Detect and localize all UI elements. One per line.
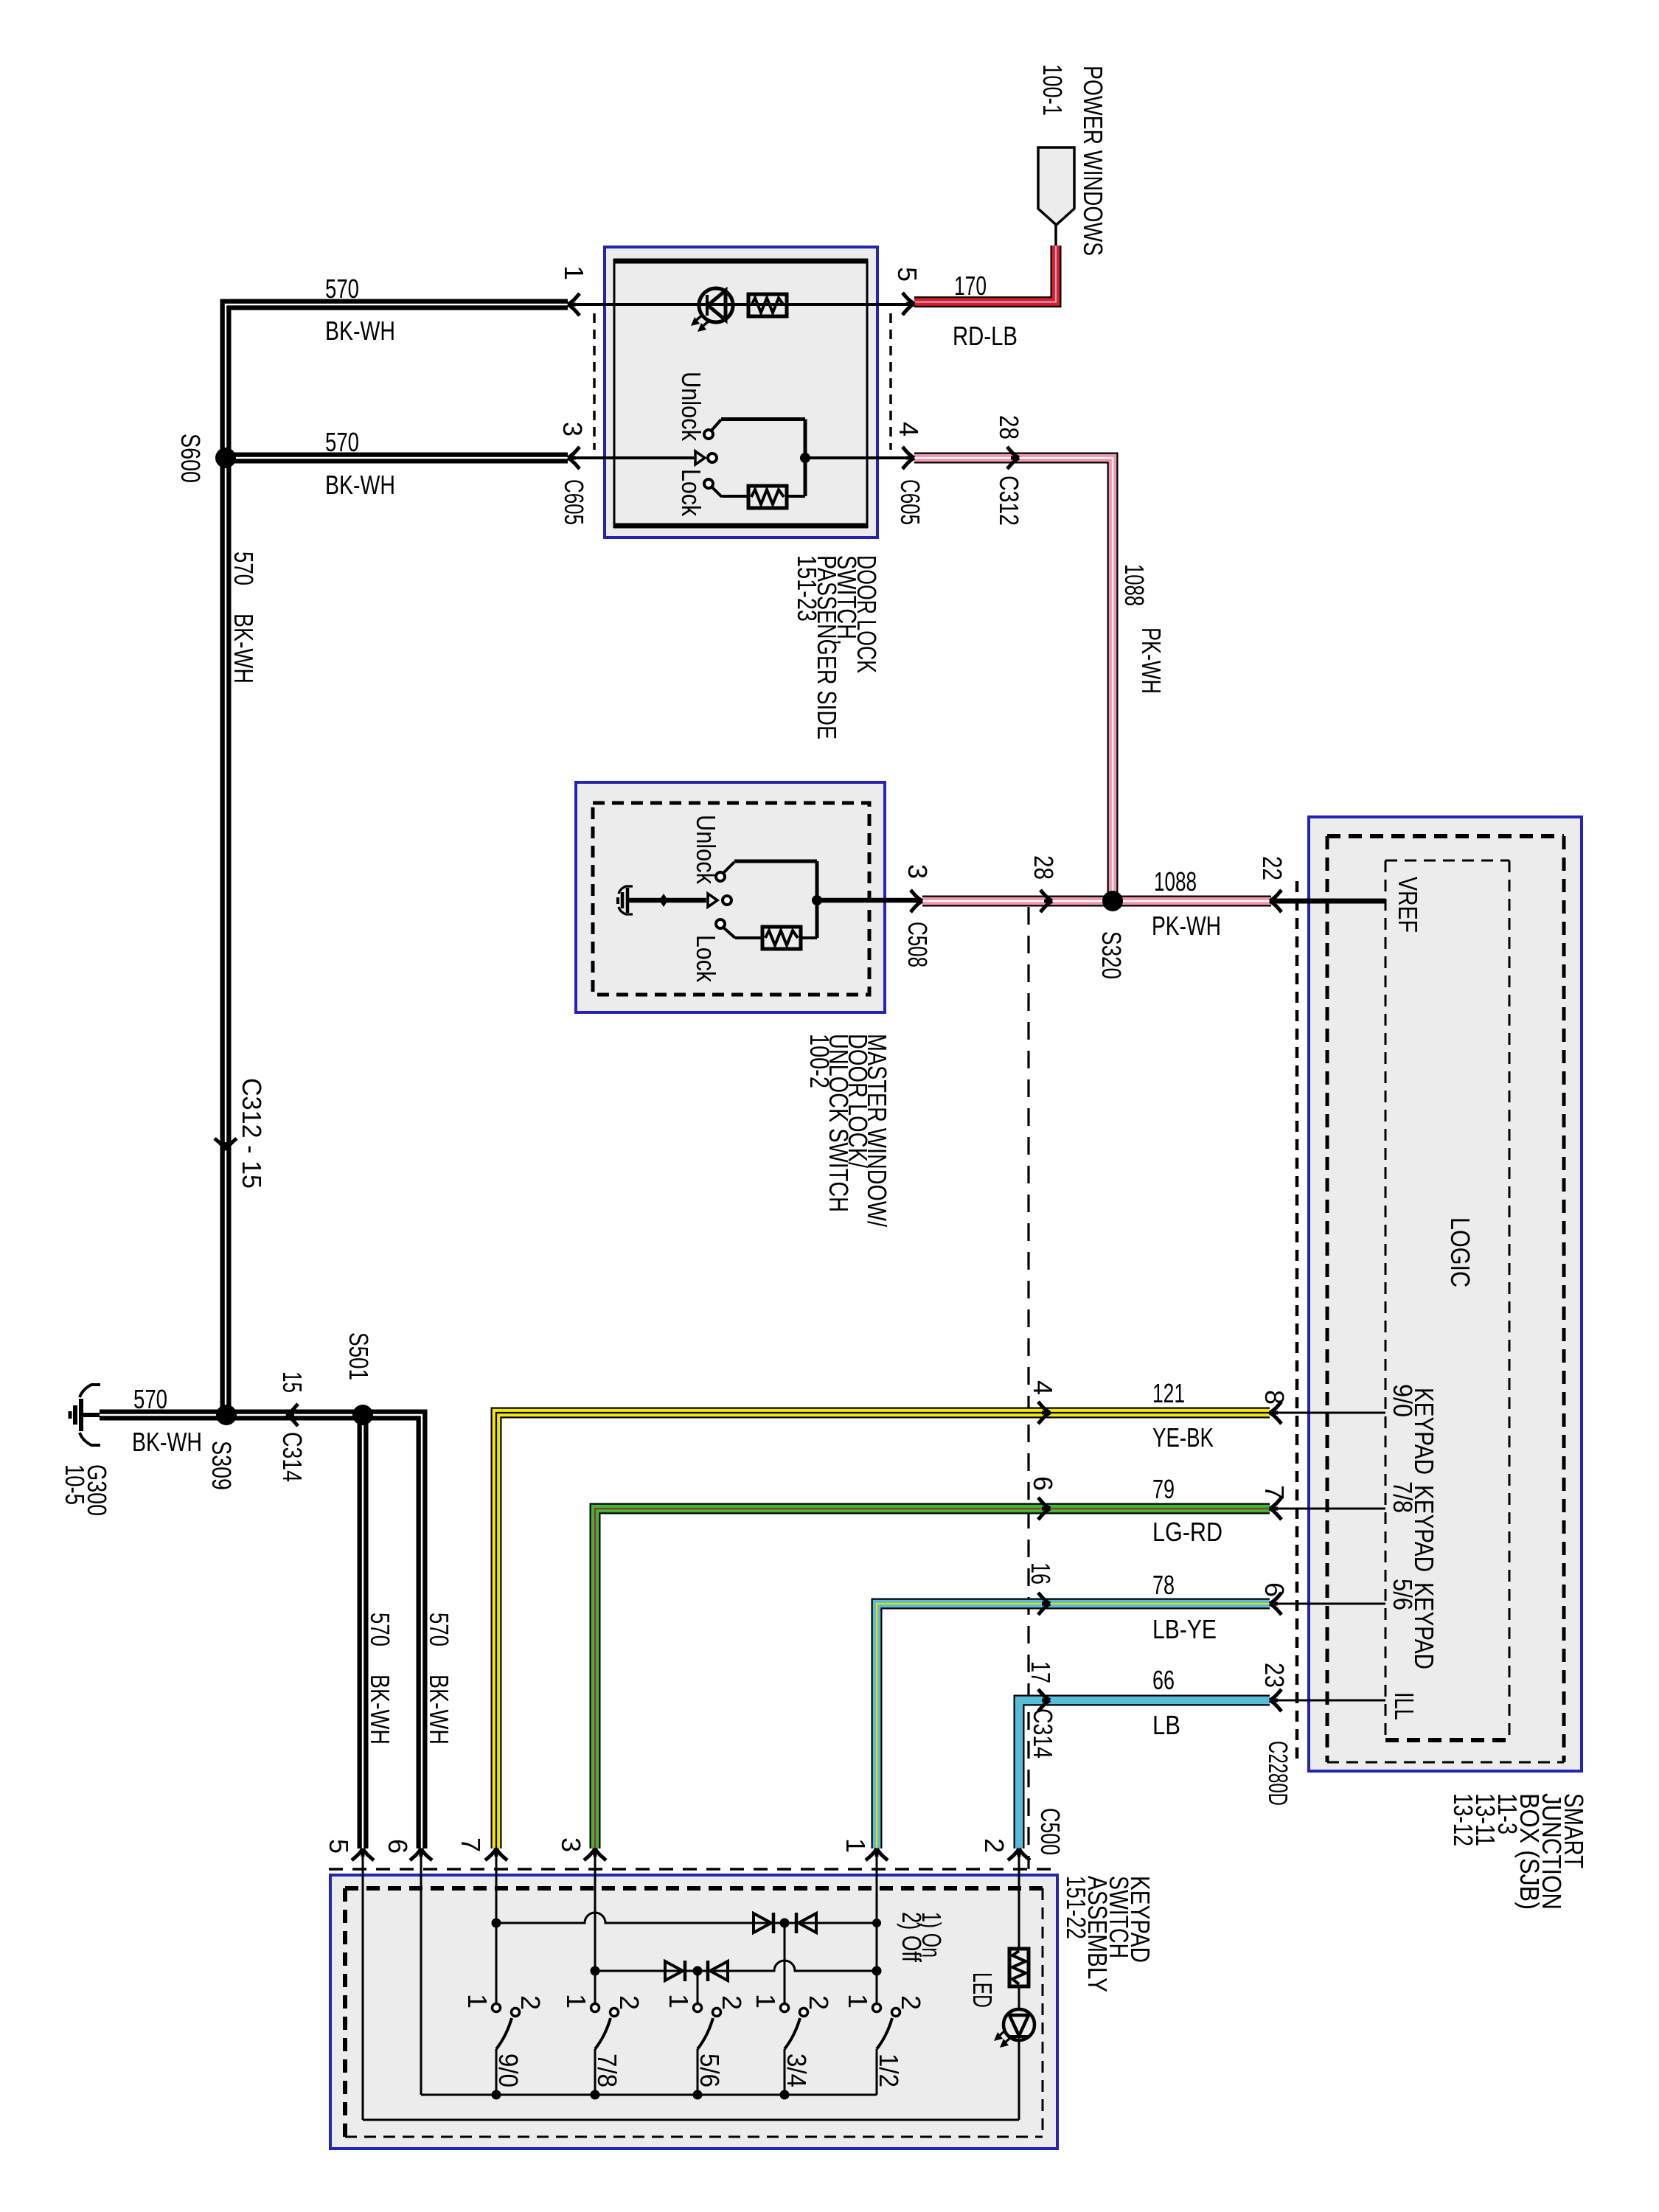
svg-text:570: 570: [325, 427, 359, 457]
svg-text:151-22: 151-22: [1061, 1876, 1091, 1939]
svg-text:Unlock: Unlock: [676, 372, 706, 442]
svg-text:1: 1: [751, 1994, 781, 2008]
svg-text:7: 7: [1259, 1485, 1290, 1500]
svg-text:BK-WH: BK-WH: [132, 1427, 202, 1457]
svg-text:66: 66: [1152, 1665, 1175, 1695]
svg-text:YE-BK: YE-BK: [1152, 1422, 1214, 1453]
svg-text:Lock: Lock: [676, 469, 706, 517]
svg-text:BK-WH: BK-WH: [365, 1674, 395, 1745]
svg-text:570: 570: [424, 1613, 454, 1646]
svg-text:C605: C605: [895, 479, 925, 525]
svg-text:C500: C500: [1035, 1808, 1065, 1855]
svg-text:RD-LB: RD-LB: [953, 321, 1018, 351]
svg-text:100-1: 100-1: [1037, 64, 1068, 116]
svg-text:S600: S600: [175, 434, 206, 483]
svg-text:1: 1: [561, 1994, 591, 2008]
svg-text:LB: LB: [1152, 1710, 1180, 1740]
svg-text:2: 2: [804, 1995, 834, 2010]
svg-text:2: 2: [515, 1995, 546, 2010]
svg-text:ILL: ILL: [1389, 1692, 1419, 1720]
svg-text:79: 79: [1152, 1474, 1175, 1504]
svg-text:23: 23: [1259, 1663, 1290, 1688]
svg-text:170: 170: [954, 271, 987, 301]
svg-text:1: 1: [462, 1994, 493, 2008]
svg-text:570: 570: [133, 1384, 167, 1414]
svg-text:VREF: VREF: [1393, 877, 1423, 933]
svg-text:3: 3: [556, 1837, 586, 1852]
svg-text:570: 570: [325, 274, 359, 304]
svg-text:S320: S320: [1096, 931, 1127, 979]
svg-text:C605: C605: [559, 479, 589, 525]
svg-text:LOGIC: LOGIC: [1445, 1217, 1475, 1287]
svg-text:BK-WH: BK-WH: [229, 613, 259, 684]
svg-text:1) On: 1) On: [917, 1912, 947, 1958]
svg-text:BK-WH: BK-WH: [325, 316, 395, 346]
svg-text:PK-WH: PK-WH: [1152, 911, 1221, 941]
svg-text:BK-WH: BK-WH: [424, 1674, 454, 1745]
svg-text:121: 121: [1152, 1378, 1185, 1408]
svg-text:28: 28: [994, 415, 1024, 439]
svg-text:151-23: 151-23: [792, 555, 822, 622]
svg-text:KEYPAD: KEYPAD: [1409, 1582, 1439, 1669]
svg-text:2: 2: [896, 1995, 926, 2010]
svg-text:6: 6: [1028, 1476, 1058, 1491]
svg-text:4: 4: [1028, 1380, 1058, 1395]
svg-text:KEYPAD: KEYPAD: [1409, 1388, 1439, 1475]
svg-text:5/6: 5/6: [695, 2053, 725, 2087]
svg-text:5: 5: [324, 1839, 354, 1854]
svg-text:5: 5: [892, 267, 922, 282]
svg-text:C314: C314: [277, 1432, 307, 1482]
svg-text:28: 28: [1029, 855, 1059, 880]
svg-text:4: 4: [894, 422, 924, 437]
svg-text:6: 6: [383, 1839, 413, 1854]
svg-text:3/4: 3/4: [782, 2053, 812, 2087]
svg-text:2: 2: [614, 1995, 644, 2010]
svg-text:C312: C312: [994, 476, 1024, 526]
svg-text:1: 1: [664, 1994, 694, 2008]
svg-text:7/8: 7/8: [592, 2053, 622, 2087]
svg-text:S309: S309: [206, 1441, 237, 1490]
svg-text:16: 16: [1026, 1562, 1056, 1585]
svg-text:KEYPAD: KEYPAD: [1409, 1485, 1439, 1572]
svg-text:22: 22: [1257, 856, 1287, 880]
svg-text:6: 6: [1259, 1582, 1290, 1597]
svg-text:9/0: 9/0: [493, 2053, 524, 2087]
svg-text:LG-RD: LG-RD: [1152, 1517, 1222, 1547]
svg-text:8: 8: [1259, 1390, 1290, 1405]
svg-text:BK-WH: BK-WH: [325, 470, 395, 500]
svg-text:1: 1: [559, 265, 589, 280]
svg-text:1/2: 1/2: [874, 2053, 904, 2087]
svg-text:570: 570: [365, 1613, 395, 1646]
svg-text:PK-WH: PK-WH: [1136, 627, 1166, 694]
svg-text:2: 2: [979, 1838, 1009, 1853]
svg-text:2: 2: [717, 1995, 747, 2010]
svg-text:7: 7: [456, 1837, 486, 1852]
svg-text:3: 3: [557, 422, 588, 437]
svg-text:78: 78: [1152, 1570, 1175, 1600]
svg-text:3: 3: [902, 864, 933, 879]
svg-text:LED: LED: [967, 1972, 998, 2008]
svg-text:C314: C314: [1028, 1708, 1058, 1759]
svg-text:S501: S501: [344, 1332, 374, 1380]
svg-text:570: 570: [229, 552, 259, 585]
svg-text:10-5: 10-5: [60, 1464, 90, 1505]
svg-text:C508: C508: [902, 922, 933, 967]
svg-text:C2280D: C2280D: [1263, 1741, 1293, 1806]
svg-text:LB-YE: LB-YE: [1152, 1614, 1217, 1644]
svg-text:15: 15: [277, 1371, 307, 1393]
svg-text:Lock: Lock: [691, 935, 721, 983]
svg-text:C312 - 15: C312 - 15: [237, 1078, 267, 1189]
svg-text:POWER WINDOWS: POWER WINDOWS: [1078, 66, 1108, 256]
svg-text:Unlock: Unlock: [691, 815, 721, 885]
svg-text:1088: 1088: [1119, 564, 1150, 606]
svg-text:1: 1: [841, 1838, 871, 1853]
svg-text:1: 1: [843, 1994, 873, 2008]
svg-text:1088: 1088: [1154, 866, 1197, 897]
svg-text:100-2: 100-2: [804, 1034, 835, 1088]
svg-text:13-12: 13-12: [1448, 1793, 1478, 1846]
svg-text:17: 17: [1026, 1661, 1056, 1683]
